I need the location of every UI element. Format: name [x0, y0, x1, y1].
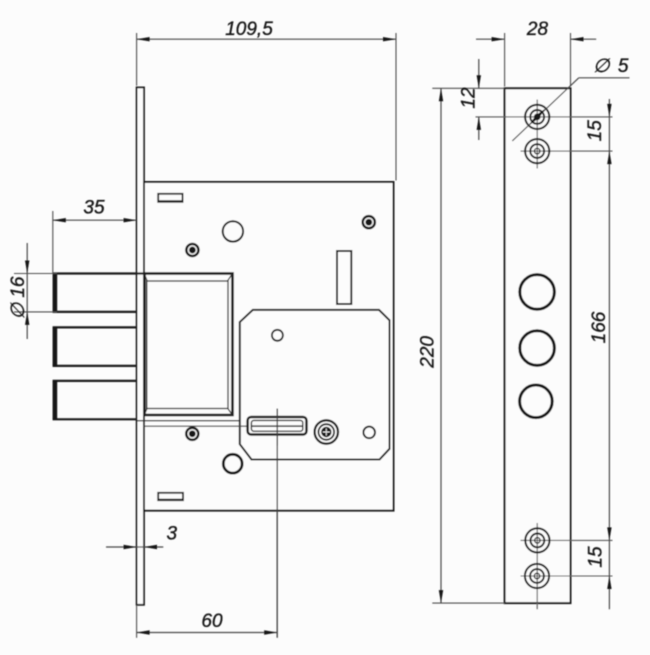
dimension 109,5	[137, 19, 396, 181]
svg-text:60: 60	[201, 611, 223, 632]
svg-text:∅ 5: ∅ 5	[593, 56, 630, 77]
dimension 15 top / 166 / 15 bottom shared line	[607, 99, 611, 609]
dimension 28	[476, 19, 596, 87]
dimension 3	[106, 524, 178, 550]
screw C bottom-left	[185, 427, 200, 442]
big hole circle 1	[520, 275, 555, 310]
faceplate (front view, thin vertical bar)	[137, 87, 144, 604]
bolt 3	[53, 381, 137, 419]
svg-text:35: 35	[83, 198, 105, 219]
svg-text:15: 15	[586, 546, 607, 568]
dimension 60	[137, 605, 278, 638]
svg-text:∅ 16: ∅ 16	[8, 276, 29, 319]
svg-text:220: 220	[418, 336, 439, 369]
crosshair vertical bottom hole pair	[536, 523, 538, 609]
crosshair vertical top hole pair	[536, 100, 538, 169]
bolt 2	[53, 327, 137, 366]
dimension 220	[418, 88, 505, 603]
keyway centerline horizontal	[144, 425, 306, 427]
svg-text:3: 3	[167, 524, 178, 545]
screw A top-left	[185, 243, 200, 258]
svg-text:166: 166	[589, 311, 610, 343]
screw hole 4	[525, 564, 549, 588]
screw B top-right	[362, 215, 377, 230]
small circle on plate right	[363, 427, 375, 439]
vertical slot	[337, 251, 351, 304]
keyhole plate (octagon)	[240, 310, 390, 460]
screw hole 1	[525, 105, 549, 129]
slot top-left	[158, 194, 182, 202]
big hole circle 3	[520, 385, 553, 418]
bolt 1	[53, 274, 146, 312]
guide line below bolt case	[137, 420, 240, 422]
bold circle bottom	[223, 454, 242, 473]
svg-text:15: 15	[585, 120, 606, 142]
svg-text:12: 12	[459, 87, 480, 109]
circle top	[223, 221, 243, 241]
hole 1 center line	[476, 116, 613, 118]
slot bottom-left	[158, 493, 183, 500]
svg-text:28: 28	[526, 19, 549, 40]
big hole circle 2	[520, 331, 555, 366]
dimension 12	[432, 59, 504, 140]
small circle on plate top-left	[272, 330, 283, 341]
dimension diameter 16	[8, 243, 57, 339]
keyway slot	[248, 409, 307, 446]
faceplate strip (side view)	[505, 88, 571, 603]
hole 3 center line	[521, 539, 613, 541]
hole 4 center line	[521, 575, 613, 577]
dimension diameter 5 leader	[512, 56, 630, 141]
lock body outline	[144, 182, 394, 511]
dimension 35	[53, 198, 137, 273]
screw hole 3	[525, 528, 549, 552]
svg-text:109,5: 109,5	[225, 19, 273, 40]
hole 2 center line	[521, 150, 613, 152]
bolt case box outer	[145, 274, 233, 416]
keyway centerline vertical / dim 60 extension	[276, 409, 278, 638]
cylinder screw	[315, 420, 338, 443]
bolt case box inner	[145, 274, 233, 414]
screw hole 2	[525, 139, 549, 163]
